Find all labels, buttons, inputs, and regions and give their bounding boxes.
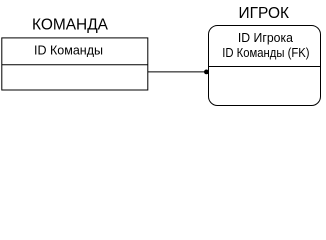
separator line ИГРОК — [209, 66, 321, 68]
entity box ИГРОК — [209, 26, 321, 106]
child-end dot — [204, 70, 209, 75]
separator line КОМАНДА — [2, 64, 148, 66]
entity box КОМАНДА — [2, 38, 148, 90]
svg-text:ИГРОК: ИГРОК — [239, 5, 290, 22]
svg-text:ID Команды (FK): ID Команды (FK) — [222, 45, 309, 60]
svg-text:ID Игрока: ID Игрока — [238, 30, 294, 45]
svg-text:КОМАНДА: КОМАНДА — [32, 17, 109, 34]
relationship wire — [148, 71, 209, 73]
svg-text:ID Команды: ID Команды — [34, 43, 103, 58]
